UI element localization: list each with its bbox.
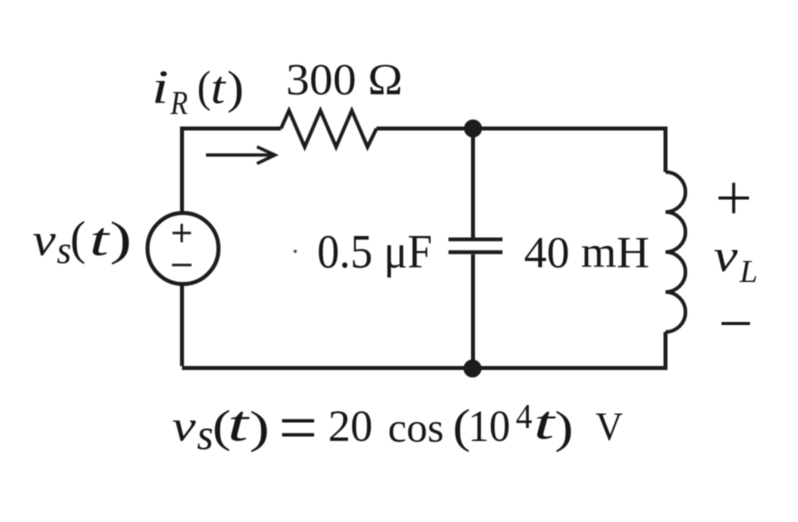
node junction dot bottom <box>464 360 482 378</box>
svg-text:L: L <box>739 254 758 288</box>
label iR(t) current label <box>152 61 244 122</box>
wire top-left horizontal <box>182 127 281 131</box>
wire right vertical top stub <box>664 127 668 173</box>
svg-text:s: s <box>197 412 213 459</box>
voltage source plus sign <box>173 224 192 243</box>
svg-text:): ) <box>227 62 244 114</box>
resistor R 300 ohm zigzag <box>281 111 377 148</box>
svg-text:v: v <box>714 230 739 281</box>
svg-text:=: = <box>279 390 318 466</box>
svg-text:i: i <box>152 61 169 114</box>
svg-text:(: ( <box>70 212 85 265</box>
wire top-right horizontal <box>377 127 666 131</box>
svg-text:4: 4 <box>516 398 533 436</box>
capacitor C top plate <box>449 237 503 241</box>
svg-text:t: t <box>211 62 227 114</box>
svg-text:10: 10 <box>468 402 510 451</box>
resistor value label 300 ohm <box>286 54 403 104</box>
label minus vL polarity <box>722 322 751 325</box>
current arrow iR head <box>257 147 275 164</box>
wire left vertical bottom <box>180 282 184 366</box>
svg-text:cos: cos <box>388 405 444 451</box>
svg-text:R: R <box>170 84 188 122</box>
svg-text:): ) <box>555 402 574 453</box>
label vL inductor voltage <box>714 230 758 289</box>
node junction dot top <box>464 120 482 138</box>
voltage source VS circle <box>148 213 219 284</box>
svg-text:v: v <box>33 215 57 265</box>
svg-text:0.5 μF: 0.5 μF <box>317 225 432 278</box>
capacitor C bottom plate <box>449 250 503 254</box>
svg-text:20: 20 <box>328 401 373 451</box>
svg-text:s: s <box>57 229 72 272</box>
wire capacitor branch bottom <box>471 254 475 368</box>
inductor value label 40 mH <box>524 228 649 277</box>
wire right vertical bottom stub <box>664 332 668 368</box>
svg-text:300 Ω: 300 Ω <box>286 54 403 104</box>
svg-text:t: t <box>90 212 111 265</box>
equation vs(t) = 20 cos(10^4 t) V <box>172 390 623 466</box>
svg-text:t: t <box>534 397 557 449</box>
stray dot artifact <box>294 250 297 253</box>
svg-text:(: ( <box>197 63 211 112</box>
svg-text:V: V <box>596 404 623 450</box>
svg-text:): ) <box>249 401 269 452</box>
current arrow iR shaft <box>206 153 271 156</box>
svg-text:40 mH: 40 mH <box>524 228 649 277</box>
label plus vL polarity <box>719 183 750 213</box>
svg-text:t: t <box>228 395 250 451</box>
svg-text:): ) <box>110 213 132 265</box>
wire bottom horizontal <box>182 366 668 370</box>
wire left vertical top <box>180 127 184 216</box>
capacitor value label 0.5 uF <box>317 225 432 278</box>
wire capacitor branch top <box>471 129 475 238</box>
inductor L 40 mH four bumps <box>666 172 686 332</box>
voltage source minus sign <box>172 264 192 267</box>
label vs(t) source name <box>33 212 132 272</box>
svg-text:v: v <box>172 402 196 450</box>
